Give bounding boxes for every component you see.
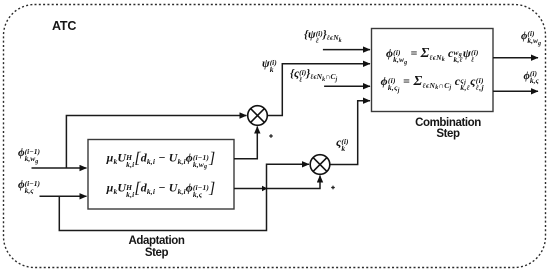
- label output phi(i)k,s: [524, 70, 539, 85]
- wire: adder 1 output (psi_k) to combination box: [267, 64, 370, 116]
- combination equation 1: [372, 46, 494, 64]
- wire: feedforward branch from input 1 up and right into adder 1: [66, 116, 246, 169]
- wire: input phi(k,s) into adaptation box: [40, 195, 87, 197]
- wire: adaptation output 2 right then up into adder 2: [234, 176, 320, 189]
- combination step box: [372, 29, 494, 112]
- adaptation equation 1: [88, 150, 234, 169]
- wire: output phi(k,wg) from combination box: [493, 57, 538, 59]
- combination equation 2: [372, 74, 494, 92]
- label s_k^(i): [336, 135, 348, 153]
- adder 1 circle with X: [248, 106, 268, 126]
- plus sign at adder 1: [269, 134, 273, 138]
- wire: {psi_l} input arrow into combination box: [323, 49, 370, 51]
- label {s_l}_{l in N_k n C_j}: [290, 68, 337, 84]
- wire: {s_l} input arrow into combination box: [324, 85, 370, 87]
- caption Combination Step: [388, 118, 508, 141]
- label {psi_l}_{l in N_k}: [304, 29, 342, 45]
- plus sign at adder 2: [331, 186, 335, 190]
- wire: input phi(k,wg) into adaptation box: [32, 167, 87, 169]
- label phi(i-1)k,s input 2: [18, 179, 40, 195]
- adaptation step box: [88, 140, 234, 210]
- crossing mark on adaptation output 2 wire: [262, 186, 268, 192]
- adaptation equation 2: [88, 180, 234, 198]
- wire: adaptation output 1 right then up into adder 1: [234, 127, 257, 159]
- wire: feedforward branch from input 2 down, along bottom, up into adder 2: [59, 164, 309, 230]
- label psi_k^(i): [262, 58, 277, 74]
- caption Adaptation Step: [97, 236, 217, 259]
- wire: adder 2 output (s_k) to combination box: [330, 101, 371, 165]
- label output phi(i)k,wg: [521, 30, 541, 46]
- adder 2 circle with X: [310, 155, 330, 175]
- label phi(i-1)k,wg input 1: [18, 147, 40, 163]
- wire: output phi(k,s) from combination box: [493, 90, 538, 92]
- ATC title: [52, 19, 76, 33]
